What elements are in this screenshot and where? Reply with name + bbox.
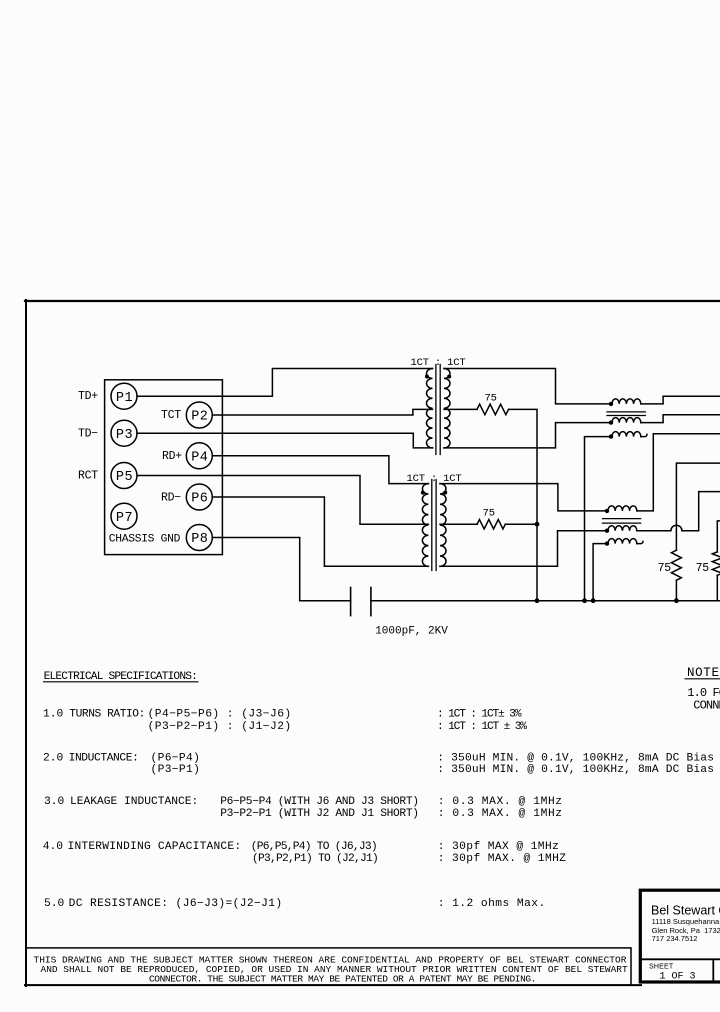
pin P1 xyxy=(111,383,137,409)
svg-text:717 234.7512: 717 234.7512 xyxy=(652,934,698,943)
wire T1 secondary bottom to choke L1b xyxy=(444,423,611,448)
pin P8 xyxy=(186,525,212,551)
wire R4 top xyxy=(717,521,720,552)
resistor R3 75 xyxy=(671,550,681,580)
svg-text:1 OF 3: 1 OF 3 xyxy=(660,972,696,983)
svg-text:75: 75 xyxy=(658,562,672,575)
wire R2 to junction xyxy=(505,523,537,525)
svg-text:ELECTRICAL SPECIFICATIONS:: ELECTRICAL SPECIFICATIONS: xyxy=(44,671,197,683)
polarity dot choke L1 winding B xyxy=(609,420,613,424)
capacitor C1 left plate xyxy=(350,588,352,616)
svg-text:75: 75 xyxy=(484,393,496,405)
polarity dot T1 primary xyxy=(425,375,429,379)
svg-text:CHASSIS GND: CHASSIS GND xyxy=(109,534,181,546)
transformer T1 primary winding xyxy=(426,369,432,448)
svg-text:P6: P6 xyxy=(191,492,208,507)
junction rail at R1 vertical xyxy=(535,598,540,603)
stub choke L1c right xyxy=(641,434,647,436)
svg-text:P6−P5−P4 (WITH J6 AND J3 SHORT: P6−P5−P4 (WITH J6 AND J3 SHORT) xyxy=(220,796,418,808)
svg-text:2.0: 2.0 xyxy=(43,753,64,765)
wire choke L1b output xyxy=(641,415,720,423)
wire R4 bottom xyxy=(716,575,718,600)
junction rail at R3 xyxy=(674,598,679,603)
svg-text:: 350uH MIN. @ 0.1V, 100KHz, 8: : 350uH MIN. @ 0.1V, 100KHz, 8mA DC Bias xyxy=(437,753,714,765)
wire T2 secondary center tap to R2 xyxy=(440,523,477,525)
svg-text:Bel Stewart Connector: Bel Stewart Connector xyxy=(651,904,720,918)
svg-text:INDUCTANCE:: INDUCTANCE: xyxy=(69,753,139,765)
svg-text:: 1.2 ohms Max.: : 1.2 ohms Max. xyxy=(438,898,546,910)
wire T2 secondary top to choke L2a xyxy=(440,484,607,511)
transformer T1 secondary winding xyxy=(444,369,450,448)
junction rail at choke L1c xyxy=(582,598,587,603)
svg-text:P3−P2−P1 (WITH J2 AND J1 SHORT: P3−P2−P1 (WITH J2 AND J1 SHORT) xyxy=(220,808,418,820)
svg-text:DC RESISTANCE: (J6−J3)=(J2−J1): DC RESISTANCE: (J6−J3)=(J2−J1) xyxy=(69,898,283,910)
polarity dot choke L2 winding A xyxy=(605,509,609,513)
wire R3 top xyxy=(676,463,720,550)
wire chassis rail xyxy=(371,600,720,602)
connector P-side body xyxy=(105,380,223,555)
svg-text:CONNECTOR: CONNECTOR xyxy=(693,699,720,713)
capacitor C1 right plate xyxy=(370,588,372,616)
svg-text:11118 Susquehanna Trail: 11118 Susquehanna Trail xyxy=(652,917,720,926)
svg-text:: 1CT : 1CT ± 3%: : 1CT : 1CT ± 3% xyxy=(437,721,527,733)
svg-text:(P6−P4): (P6−P4) xyxy=(151,753,201,765)
choke L1 core xyxy=(607,412,645,416)
svg-text:TCT: TCT xyxy=(161,409,181,422)
disclaimer box xyxy=(26,948,631,985)
pin P4 xyxy=(186,443,212,469)
wire T1 secondary center tap to R1 xyxy=(444,408,477,410)
wire R1 to chassis rail xyxy=(509,409,538,600)
wire P2 to T1 primary center tap xyxy=(212,409,432,415)
wire choke L2c to chassis rail xyxy=(593,544,607,601)
wire T1 secondary top to choke L1a xyxy=(444,369,611,404)
svg-text:(P6,P5,P4) TO (J6,J3): (P6,P5,P4) TO (J6,J3) xyxy=(251,841,377,853)
polarity dot choke L2 winding C xyxy=(605,541,609,545)
resistor R2 75 xyxy=(477,520,505,529)
pin P7 xyxy=(111,503,137,529)
transformer T2 primary winding xyxy=(422,484,428,567)
wire T2 secondary bottom to choke L2b xyxy=(440,531,607,567)
title block divider xyxy=(641,959,720,981)
svg-text:3.0: 3.0 xyxy=(44,796,65,808)
wire P5 to T2 primary center tap xyxy=(137,476,428,525)
resistor R4 75 xyxy=(712,552,720,575)
choke L2 core xyxy=(603,519,641,524)
stub choke L2c right xyxy=(637,541,643,543)
svg-text:: 350uH MIN. @ 0.1V, 100KHz, 8: : 350uH MIN. @ 0.1V, 100KHz, 8mA DC Bias xyxy=(437,764,714,776)
svg-text:RCT: RCT xyxy=(78,470,98,483)
svg-text:NOTES:: NOTES: xyxy=(687,666,720,680)
svg-text:1CT : 1CT: 1CT : 1CT xyxy=(411,357,466,369)
wire R3 bottom xyxy=(675,580,677,601)
svg-text:RD+: RD+ xyxy=(162,450,182,463)
svg-text:: 1CT : 1CT± 3%: : 1CT : 1CT± 3% xyxy=(437,709,522,721)
svg-text:(P4−P5−P6) : (J3−J6): (P4−P5−P6) : (J3−J6) xyxy=(148,709,292,721)
svg-text:(P3−P1): (P3−P1) xyxy=(151,764,201,776)
svg-text:TURNS RATIO:: TURNS RATIO: xyxy=(69,709,145,721)
svg-text:P2: P2 xyxy=(191,410,208,425)
wire P8 to capacitor C1 xyxy=(212,538,350,601)
title block box xyxy=(640,890,720,982)
svg-text:P5: P5 xyxy=(116,470,133,485)
pin P5 xyxy=(111,463,137,489)
svg-text:: 30pf MAX @ 1MHz: : 30pf MAX @ 1MHz xyxy=(438,841,560,853)
svg-text:P3: P3 xyxy=(116,428,133,443)
transformer T2 core xyxy=(432,480,436,571)
wire P4 to T2 primary top xyxy=(212,456,428,484)
svg-text:: 30pf MAX. @ 1MHZ: : 30pf MAX. @ 1MHZ xyxy=(438,853,567,865)
svg-text:P7: P7 xyxy=(116,511,133,526)
wire P6 to T2 primary bottom xyxy=(212,497,428,566)
wire choke L2a output xyxy=(637,434,720,511)
svg-text:4.0: 4.0 xyxy=(43,841,64,853)
svg-text:P8: P8 xyxy=(191,532,208,547)
svg-text:(P3,P2,P1) TO (J2,J1): (P3,P2,P1) TO (J2,J1) xyxy=(252,853,378,865)
svg-text:CONNECTOR. THE SUBJECT MATTER: CONNECTOR. THE SUBJECT MATTER MAY BE PAT… xyxy=(149,974,536,985)
svg-text:TD+: TD+ xyxy=(78,390,98,403)
svg-text:: 0.3 MAX. @ 1MHz: : 0.3 MAX. @ 1MHz xyxy=(438,808,563,820)
transformer T2 secondary winding xyxy=(440,484,446,567)
svg-text:SHEET: SHEET xyxy=(649,963,674,970)
svg-text:(P3−P2−P1) : (J1−J2): (P3−P2−P1) : (J1−J2) xyxy=(148,721,292,733)
polarity dot choke L2 winding B xyxy=(605,529,609,533)
svg-text:P1: P1 xyxy=(116,391,133,406)
svg-text:P4: P4 xyxy=(191,450,208,465)
svg-text:LEAKAGE INDUCTANCE:: LEAKAGE INDUCTANCE: xyxy=(70,796,198,808)
choke L1 winding C xyxy=(612,432,641,437)
transformer T1 core xyxy=(436,365,440,455)
svg-text:TD−: TD− xyxy=(78,428,98,441)
pin P3 xyxy=(111,420,137,446)
border frame xyxy=(25,300,720,986)
polarity dot choke L1 winding A xyxy=(609,402,613,406)
svg-text:INTERWINDING CAPACITANCE:: INTERWINDING CAPACITANCE: xyxy=(68,841,242,853)
svg-text:RD−: RD− xyxy=(161,492,181,505)
svg-text:1000pF, 2KV: 1000pF, 2KV xyxy=(375,626,448,638)
svg-text:5.0: 5.0 xyxy=(44,898,65,910)
pin P6 xyxy=(186,484,212,510)
wire choke L2b output with hop xyxy=(637,492,720,531)
svg-text:1CT : 1CT: 1CT : 1CT xyxy=(407,473,462,485)
polarity dot T1 secondary xyxy=(447,375,451,379)
resistor R1 75 xyxy=(477,404,509,415)
polarity dot T2 primary xyxy=(421,491,425,495)
svg-text:1.0: 1.0 xyxy=(43,709,64,721)
svg-text:75: 75 xyxy=(483,508,495,520)
wire P3 to T1 primary bottom xyxy=(137,433,433,448)
svg-text:: 0.3 MAX. @ 1MHz: : 0.3 MAX. @ 1MHz xyxy=(438,796,563,808)
polarity dot T2 secondary xyxy=(443,491,447,495)
wire P1 to T1 primary top xyxy=(137,369,433,397)
polarity dot choke L1 winding C xyxy=(609,434,613,438)
choke L2 winding A xyxy=(608,506,637,511)
wire choke L1c to chassis rail xyxy=(585,437,612,601)
choke L1 winding A xyxy=(612,399,641,404)
junction rail at choke L2c xyxy=(591,598,596,603)
choke L2 winding B xyxy=(608,526,637,531)
choke L2 winding C xyxy=(608,539,637,544)
choke L1 winding B xyxy=(612,418,641,423)
wire choke L1a output xyxy=(641,396,720,404)
junction R2 vertical xyxy=(535,522,540,527)
svg-text:75: 75 xyxy=(696,562,710,575)
pin P2 xyxy=(186,402,212,428)
